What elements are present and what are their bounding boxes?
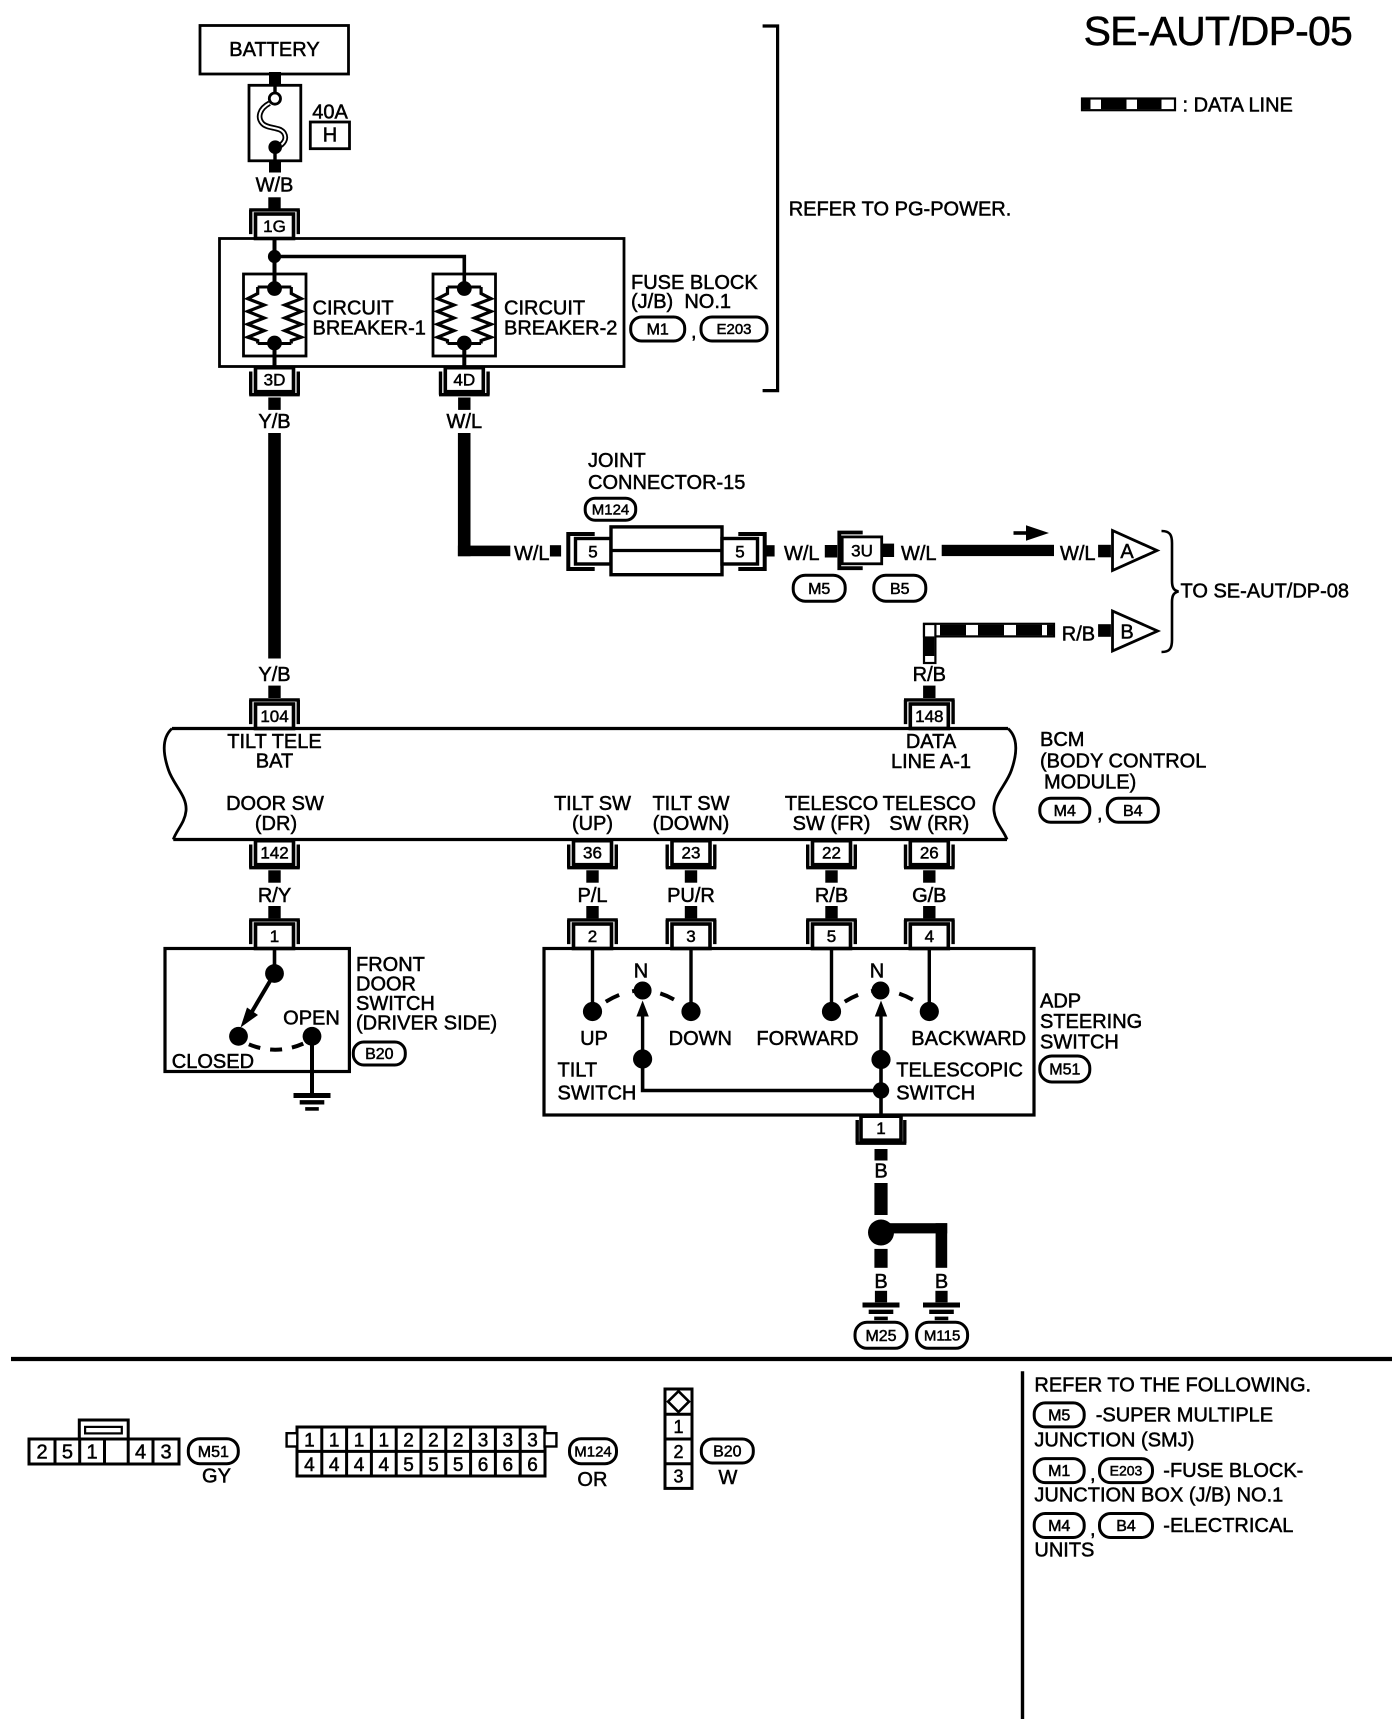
svg-text:CIRCUIT: CIRCUIT [504, 298, 585, 320]
legend divider line [1021, 1371, 1024, 1719]
svg-text:OPEN: OPEN [283, 1008, 340, 1030]
svg-text:A: A [1120, 541, 1134, 563]
svg-text:2: 2 [36, 1442, 47, 1464]
wire stub G/B lower [923, 906, 935, 918]
wire Y/B vertical [268, 433, 281, 659]
wire stub [550, 545, 561, 556]
svg-text:(DOWN): (DOWN) [653, 813, 730, 835]
svg-text:6: 6 [503, 1455, 514, 1476]
connector ref M51 face [188, 1439, 238, 1464]
connector pin 4 [904, 920, 955, 949]
telesco travel arc [832, 991, 930, 1012]
svg-text:: DATA LINE: : DATA LINE [1183, 95, 1293, 117]
wire label W/B [256, 175, 294, 197]
svg-text:1: 1 [354, 1430, 365, 1451]
wire W/L to joint connector [458, 433, 510, 556]
svg-text:M4: M4 [1048, 1518, 1070, 1535]
svg-text:M51: M51 [1049, 1062, 1080, 1079]
label W [719, 1467, 738, 1489]
svg-text:BAT: BAT [256, 751, 293, 773]
svg-text:TILT SW: TILT SW [554, 793, 631, 815]
wire stub PU/R upper [685, 870, 697, 882]
svg-text:CLOSED: CLOSED [172, 1051, 254, 1073]
wire CB1 to 3D [273, 344, 277, 369]
svg-text:23: 23 [682, 843, 701, 862]
svg-text:B5: B5 [890, 581, 910, 598]
bracket refer to pg-power [763, 26, 778, 391]
tilt travel arc [593, 991, 692, 1012]
telesco N contact [872, 982, 890, 1000]
wire stub [825, 545, 837, 558]
brace to SE-AUT/DP-08 [1162, 531, 1179, 652]
wire label R/B [815, 885, 848, 907]
svg-text:W/L: W/L [514, 543, 550, 565]
svg-text:W/L: W/L [784, 543, 820, 565]
svg-text:STEERING: STEERING [1040, 1011, 1142, 1033]
connector ref M5 legend [1034, 1403, 1084, 1427]
label circuit breaker-1 [313, 298, 426, 340]
note refer to pg-power [789, 199, 1012, 221]
telesco common contact [871, 1050, 890, 1069]
joint connector-15 right bracket [738, 534, 764, 569]
door sw blade [241, 974, 275, 1028]
wire label Y/B 2 [258, 664, 290, 686]
ground door switch [294, 1096, 331, 1109]
svg-text:ADP: ADP [1040, 991, 1081, 1013]
connector ref B4 legend [1100, 1514, 1153, 1538]
connector ref B5 [874, 575, 926, 601]
svg-text:-SUPER MULTIPLE: -SUPER MULTIPLE [1096, 1405, 1273, 1427]
svg-text:M1: M1 [647, 322, 669, 339]
connector ref M4 legend [1034, 1514, 1084, 1538]
BCM pin 148 label [891, 731, 971, 773]
svg-text:(DRIVER SIDE): (DRIVER SIDE) [356, 1013, 497, 1035]
label fuse block [631, 272, 758, 313]
svg-text:4: 4 [304, 1455, 315, 1476]
wire stub [1098, 624, 1111, 637]
svg-text:TELESCO: TELESCO [785, 793, 878, 815]
title SE-AUT/DP-05 [1084, 8, 1352, 54]
svg-text:M5: M5 [1048, 1408, 1070, 1425]
svg-text:2: 2 [588, 927, 597, 946]
wire stub above 104 [268, 686, 280, 698]
svg-text:6: 6 [527, 1455, 538, 1476]
svg-text:R/B: R/B [913, 664, 946, 686]
tilt N contact [634, 982, 652, 1000]
connector ref M124 face [570, 1439, 617, 1464]
svg-text:TILT: TILT [558, 1060, 598, 1082]
label N telesco [870, 961, 884, 983]
ground M115 [923, 1305, 960, 1318]
wire stub [1098, 545, 1111, 558]
svg-text:G/B: G/B [912, 885, 946, 907]
svg-text:3U: 3U [851, 542, 873, 561]
svg-text:4D: 4D [453, 370, 475, 389]
off-page triangle A [1113, 531, 1158, 571]
wire stub below 3D [268, 398, 280, 410]
svg-text:148: 148 [915, 707, 943, 726]
comma [1090, 1519, 1096, 1541]
connector pin 148 [904, 700, 955, 729]
connector ref E203 [701, 317, 767, 341]
svg-text:FORWARD: FORWARD [756, 1028, 858, 1050]
connector 4D [439, 368, 490, 395]
BCM door sw label [226, 793, 324, 835]
wire stub above 148 [923, 686, 935, 698]
svg-text:W: W [719, 1467, 738, 1489]
svg-text:JOINT: JOINT [588, 450, 646, 472]
door sw travel arc [247, 1044, 304, 1050]
wire label W/L 4 [901, 543, 937, 565]
fuse block J/B box [220, 239, 625, 367]
svg-text:DATA: DATA [906, 731, 957, 753]
tilt up contact [583, 1002, 602, 1021]
label GY [202, 1466, 231, 1488]
svg-text:B: B [935, 1271, 948, 1293]
svg-text:SWITCH: SWITCH [896, 1083, 975, 1105]
junction node switch [873, 1082, 889, 1098]
wire stub [882, 544, 894, 557]
wire CB2 to 4D [462, 344, 466, 369]
label DOWN [669, 1028, 732, 1050]
wire label R/B [1062, 624, 1095, 646]
svg-text:,: , [691, 321, 697, 343]
tilt common contact [633, 1049, 652, 1068]
door sw open contact [303, 1027, 322, 1046]
svg-text:TELESCOPIC: TELESCOPIC [896, 1060, 1023, 1082]
svg-text:3D: 3D [264, 370, 286, 389]
connector face M124 [287, 1427, 557, 1476]
svg-text:4: 4 [329, 1455, 340, 1476]
svg-text:2: 2 [428, 1430, 439, 1451]
comma [1090, 1464, 1096, 1486]
svg-text:UP: UP [580, 1028, 608, 1050]
connector pin 2 [567, 920, 618, 949]
svg-text:B20: B20 [365, 1046, 394, 1063]
svg-text:Y/B: Y/B [258, 664, 290, 686]
BCM tilt down label [652, 793, 729, 835]
wire fusible link to 1G [268, 161, 281, 210]
connector face M51 [29, 1420, 179, 1464]
svg-text:SWITCH: SWITCH [1040, 1032, 1119, 1054]
front door switch box [165, 949, 349, 1072]
wire pin 5 lead [830, 949, 833, 1012]
svg-text:5: 5 [735, 543, 744, 562]
label tilt switch [558, 1060, 637, 1105]
svg-text:,: , [1090, 1519, 1096, 1541]
svg-text:1: 1 [270, 927, 279, 946]
note super multiple junction [1034, 1405, 1273, 1452]
svg-text:5: 5 [453, 1455, 464, 1476]
tilt selector arrow [636, 1001, 648, 1052]
value 40A [312, 102, 348, 124]
svg-text:B4: B4 [1123, 803, 1143, 820]
svg-text:MODULE): MODULE) [1044, 772, 1136, 794]
svg-text:B: B [874, 1271, 887, 1293]
svg-text:M124: M124 [592, 502, 630, 519]
svg-text:-FUSE BLOCK-: -FUSE BLOCK- [1163, 1460, 1303, 1482]
svg-text:5: 5 [428, 1455, 439, 1476]
svg-text:1: 1 [87, 1442, 98, 1464]
label ADP steering switch [1040, 991, 1142, 1054]
wire telesco common down [879, 1060, 883, 1118]
wire pin 4 lead [928, 949, 931, 1012]
svg-text:CIRCUIT: CIRCUIT [313, 298, 394, 320]
svg-text:Y/B: Y/B [258, 411, 290, 433]
BCM pin 104 label [227, 731, 321, 773]
svg-text:4: 4 [379, 1455, 390, 1476]
data line wire R/B horizontal [924, 624, 1054, 637]
svg-text:M5: M5 [808, 581, 830, 598]
label OPEN [283, 1008, 340, 1030]
wire pin1 to contact [273, 949, 277, 974]
svg-text:GY: GY [202, 1466, 231, 1488]
wire 1G to circuit breaker 1 [273, 239, 277, 288]
svg-text:REFER TO THE FOLLOWING.: REFER TO THE FOLLOWING. [1034, 1375, 1311, 1397]
wire label G/B [912, 885, 946, 907]
svg-text:,: , [1097, 803, 1103, 825]
svg-text:TELESCO: TELESCO [883, 793, 976, 815]
label telescopic switch [896, 1060, 1023, 1105]
comma [1097, 803, 1103, 825]
connector 3U [842, 537, 882, 564]
ADP steering switch box [544, 949, 1034, 1116]
label UP [580, 1028, 608, 1050]
ground junction node [868, 1220, 894, 1246]
connector pin 1 [249, 920, 300, 949]
wire stub [763, 545, 774, 556]
wire stub R/Y upper [268, 870, 280, 882]
BCM tilt up label [554, 793, 631, 835]
connector ref M124 [585, 498, 636, 520]
wire B vertical [874, 1183, 887, 1215]
label CLOSED [172, 1051, 254, 1073]
joint connector-15 left pin 5 [576, 539, 612, 565]
note refer to the following [1034, 1375, 1311, 1397]
connector ref E203 legend [1100, 1459, 1153, 1483]
wire stub R/Y lower [268, 906, 280, 918]
connector 3U bracket [839, 533, 862, 569]
wire label PU/R [667, 885, 715, 907]
svg-text:REFER TO PG-POWER.: REFER TO PG-POWER. [789, 199, 1012, 221]
connector pin 1 ADP [856, 1116, 907, 1143]
legend: data line sample [1082, 95, 1293, 117]
wire label B [874, 1161, 887, 1183]
svg-text:LINE A-1: LINE A-1 [891, 751, 971, 773]
connector pin 142 [249, 841, 300, 868]
fuse letter H box [310, 122, 349, 149]
door sw common contact [265, 964, 284, 983]
svg-text:DOWN: DOWN [669, 1028, 732, 1050]
wire label W/L 2 [514, 543, 550, 565]
svg-text:DOOR SW: DOOR SW [226, 793, 324, 815]
off-page triangle B [1113, 611, 1158, 651]
data line wire R/B vertical [924, 624, 935, 663]
svg-text:(J/B) NO.1: (J/B) NO.1 [631, 291, 731, 313]
svg-text:BCM: BCM [1040, 729, 1084, 751]
wire branch to M115 ground [881, 1223, 947, 1268]
svg-text:1: 1 [876, 1119, 885, 1138]
fusible link 40A H [249, 85, 301, 161]
svg-text:1G: 1G [263, 217, 286, 236]
svg-text:40A: 40A [312, 102, 348, 124]
svg-text:JUNCTION BOX (J/B) NO.1: JUNCTION BOX (J/B) NO.1 [1034, 1485, 1283, 1507]
wire pin 2 lead [591, 949, 594, 1012]
svg-text:W/L: W/L [447, 411, 483, 433]
svg-text:N: N [870, 961, 884, 983]
svg-text:104: 104 [260, 707, 288, 726]
connector face B20 [665, 1389, 692, 1488]
wire stub R/B lower [825, 906, 837, 918]
wire stub [875, 1291, 887, 1303]
wire label P/L [577, 885, 607, 907]
connector pin 104 [249, 700, 300, 729]
label BACKWARD [911, 1028, 1026, 1050]
wire stub [935, 1291, 947, 1303]
connector pin 36 [567, 841, 618, 868]
svg-text:(UP): (UP) [572, 813, 613, 835]
connector pin 5 [806, 920, 857, 949]
svg-text:JUNCTION (SMJ): JUNCTION (SMJ) [1034, 1430, 1194, 1452]
svg-text:1: 1 [673, 1417, 683, 1437]
svg-text:M124: M124 [574, 1444, 612, 1461]
connector ref M5 [793, 575, 845, 601]
connector ref B4 [1107, 798, 1158, 822]
wire branch to circuit breaker 2 [275, 257, 465, 289]
telesco selector arrow [875, 1001, 887, 1052]
svg-text:E203: E203 [1110, 1463, 1143, 1479]
wire stub P/L lower [586, 906, 598, 918]
svg-text:SW (FR): SW (FR) [793, 813, 871, 835]
telesco backward contact [920, 1002, 939, 1021]
connector pin 22 [806, 841, 857, 868]
separator line [11, 1357, 1392, 1361]
svg-text:UNITS: UNITS [1034, 1540, 1094, 1562]
circuit breaker CB1 [244, 274, 307, 356]
svg-text:PU/R: PU/R [667, 885, 715, 907]
svg-text:3: 3 [160, 1442, 171, 1464]
svg-text:OR: OR [577, 1469, 607, 1491]
connector 1G [249, 210, 300, 239]
label OR [577, 1469, 607, 1491]
svg-text:TILT SW: TILT SW [652, 793, 729, 815]
ground M25 [863, 1305, 900, 1318]
svg-text:5: 5 [588, 543, 597, 562]
label N tilt [634, 961, 648, 983]
BCM body box [164, 729, 1016, 840]
wire label W/L 3 [784, 543, 820, 565]
svg-text:P/L: P/L [577, 885, 607, 907]
note to SE-AUT/DP-08 [1181, 581, 1350, 603]
wire to M25 ground [874, 1249, 887, 1268]
junction node [268, 250, 281, 263]
svg-text:1: 1 [379, 1430, 390, 1451]
svg-text:R/B: R/B [815, 885, 848, 907]
wire stub below pin 1 [875, 1149, 888, 1161]
svg-text:BREAKER-2: BREAKER-2 [504, 318, 617, 340]
BCM telesco rr label [883, 793, 976, 835]
svg-text:CONNECTOR-15: CONNECTOR-15 [588, 472, 745, 494]
svg-text:5: 5 [62, 1442, 73, 1464]
svg-text:3: 3 [673, 1466, 683, 1486]
svg-text:M1: M1 [1048, 1463, 1070, 1480]
connector pin 23 [666, 841, 717, 868]
svg-text:W/L: W/L [901, 543, 937, 565]
circuit breaker CB2 [433, 274, 496, 356]
connector ref M1 [631, 317, 685, 341]
wire battery to fusible link [269, 72, 281, 86]
svg-text:TO SE-AUT/DP-08: TO SE-AUT/DP-08 [1181, 581, 1350, 603]
svg-text:3: 3 [527, 1430, 538, 1451]
joint connector-15 left bracket [568, 534, 594, 569]
connector 3D [249, 368, 300, 395]
svg-text:M25: M25 [865, 1328, 896, 1345]
svg-text:2: 2 [673, 1442, 683, 1462]
wire pin 3 lead [689, 949, 692, 1012]
svg-text:(DR): (DR) [255, 813, 297, 835]
svg-text:,: , [1090, 1464, 1096, 1486]
note fuse block [1034, 1460, 1303, 1507]
svg-text:2: 2 [403, 1430, 414, 1451]
BCM telesco fr label [785, 793, 878, 835]
joint connector-15 right pin 5 [722, 539, 758, 565]
svg-text:SE-AUT/DP-05: SE-AUT/DP-05 [1084, 8, 1352, 54]
wire label W/L 5 [1060, 543, 1096, 565]
wire stub G/B upper [923, 870, 935, 882]
direction arrow [1014, 525, 1050, 541]
tilt down contact [681, 1002, 700, 1021]
svg-text:SWITCH: SWITCH [558, 1083, 637, 1105]
wire label R/B 2 [913, 664, 946, 686]
svg-text:R/Y: R/Y [258, 885, 291, 907]
svg-text:M115: M115 [924, 1328, 960, 1345]
wire stub PU/R lower [685, 906, 697, 918]
svg-text:22: 22 [822, 843, 841, 862]
label FORWARD [756, 1028, 858, 1050]
svg-text:2: 2 [453, 1430, 464, 1451]
wire label Y/B [258, 411, 290, 433]
svg-text:36: 36 [583, 843, 602, 862]
svg-text:142: 142 [260, 843, 288, 862]
svg-text:BREAKER-1: BREAKER-1 [313, 318, 426, 340]
note electrical units [1034, 1515, 1293, 1562]
wire tilt common to junction [643, 1059, 881, 1091]
svg-text:B: B [874, 1161, 887, 1183]
svg-text:5: 5 [827, 927, 836, 946]
joint connector-15 body M124 [611, 527, 722, 575]
svg-text:SW (RR): SW (RR) [889, 813, 969, 835]
connector pin 26 [904, 841, 955, 868]
label circuit breaker-2 [504, 298, 617, 340]
svg-text:26: 26 [920, 843, 939, 862]
wire label R/Y [258, 885, 291, 907]
wire label B left [874, 1271, 887, 1293]
svg-text:W/B: W/B [256, 175, 294, 197]
svg-text:4: 4 [925, 927, 934, 946]
door sw closed contact [229, 1027, 248, 1046]
svg-text:6: 6 [478, 1455, 489, 1476]
svg-text:4: 4 [135, 1442, 146, 1464]
svg-text:BATTERY: BATTERY [229, 39, 319, 61]
svg-text:M4: M4 [1054, 803, 1076, 820]
svg-text:E203: E203 [716, 321, 751, 338]
telesco forward contact [822, 1002, 841, 1021]
label joint connector-15 [588, 450, 745, 494]
svg-text:3: 3 [686, 927, 695, 946]
svg-text:(BODY CONTROL: (BODY CONTROL [1040, 751, 1206, 773]
connector ref M25 [855, 1322, 907, 1348]
svg-text:-ELECTRICAL: -ELECTRICAL [1163, 1515, 1293, 1537]
